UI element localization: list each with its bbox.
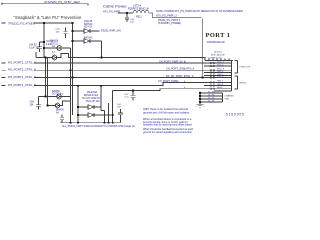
pin contact row y77.5 bbox=[210, 77, 212, 79]
svg-text:RS232_PWR_5V0: RS232_PWR_5V0 bbox=[101, 30, 121, 33]
svg-text:CHASSIS: CHASSIS bbox=[225, 94, 235, 97]
wire rail x45.5 bbox=[45, 58, 47, 97]
wire rail x78 bbox=[77, 86, 79, 123]
junction gnd bus x70 bbox=[70, 122, 72, 124]
svg-text:25V: 25V bbox=[117, 107, 121, 109]
junction net D rail x78 bbox=[77, 85, 79, 87]
pin contacts bbox=[214, 61, 232, 92]
svg-text:J4 RJ45: J4 RJ45 bbox=[214, 52, 222, 54]
wire rail x70.5 bbox=[70, 48, 72, 123]
wire row y85.6 bbox=[204, 85, 232, 87]
svg-text:FB21: FB21 bbox=[136, 15, 142, 18]
wire rail x47.5 bbox=[47, 58, 49, 106]
wire rail x104.5 bbox=[104, 111, 106, 123]
svg-text:0.1uF 16V: 0.1uF 16V bbox=[29, 47, 40, 49]
capacitor C1 bbox=[63, 28, 67, 39]
capacitor C6 bbox=[118, 109, 123, 123]
wire bus y57.5 bbox=[36, 52, 205, 61]
wire net A y23 bbox=[2, 22, 73, 24]
connector labels bbox=[208, 52, 251, 103]
junction x112 y115 bbox=[112, 114, 114, 116]
diode D7 bbox=[88, 113, 94, 117]
svg-text:RS_PORT1_CTRL_B: RS_PORT1_CTRL_B bbox=[8, 67, 36, 71]
svg-text:CN_PORT_GND_RTN_A: CN_PORT_GND_RTN_A bbox=[166, 67, 195, 70]
svg-text:PORT 1: PORT 1 bbox=[206, 32, 231, 39]
junction D3 tap bbox=[43, 47, 45, 49]
junction diode row y107 bbox=[77, 106, 79, 108]
svg-text:1=GRN 8=YEL: 1=GRN 8=YEL bbox=[208, 57, 223, 59]
junction branch2 bbox=[72, 40, 74, 42]
junction branch1 bbox=[72, 30, 74, 32]
svg-text:1N4148: 1N4148 bbox=[84, 21, 93, 23]
diode D1 bbox=[84, 29, 90, 33]
svg-text:Cable Power: Cable Power bbox=[103, 4, 127, 9]
pin contact row y82.5 bbox=[210, 82, 212, 84]
svg-text:GN2 8: GN2 8 bbox=[217, 84, 224, 86]
svg-text:75_1%: 75_1% bbox=[208, 97, 215, 99]
diode D4 bbox=[57, 94, 62, 99]
diode D2 bbox=[84, 39, 90, 43]
wire rail x72.5 bbox=[72, 23, 74, 115]
junction C44 tap bbox=[126, 12, 128, 14]
svg-text:MOD JACK 8P: MOD JACK 8P bbox=[211, 54, 225, 57]
wire rail x112.8 bbox=[112, 91, 114, 123]
svg-text:RS_PORT1_CTRL_D: RS_PORT1_CTRL_D bbox=[8, 83, 36, 87]
junction C2 tap bbox=[43, 41, 45, 43]
wire y48 diode branch 3 bbox=[44, 47, 71, 49]
wire branch y96.5 bbox=[46, 96, 71, 98]
svg-text:PULLUP 10K: PULLUP 10K bbox=[86, 101, 100, 103]
pin contact row y88.7 bbox=[210, 88, 212, 90]
capacitor C4 bbox=[36, 97, 46, 110]
svg-text:GND: GND bbox=[225, 99, 230, 101]
svg-text:"Snagback" & "Late PU" Prevent: "Snagback" & "Late PU" Prevention bbox=[14, 15, 83, 20]
diode D6 bbox=[88, 105, 94, 109]
junction bus y57 x101 bbox=[101, 57, 103, 59]
capacitor C5 bbox=[60, 115, 64, 123]
wire top standby sense bbox=[2, 3, 88, 6]
svg-text:BAW56: BAW56 bbox=[51, 40, 59, 43]
pin numbers left of rail bbox=[184, 61, 186, 89]
svg-text:SOT23 A4: SOT23 A4 bbox=[52, 93, 63, 96]
wire rail x44 bbox=[43, 23, 45, 58]
svg-text:C64 E3: C64 E3 bbox=[29, 45, 37, 47]
junction gnd bus x112 bbox=[112, 122, 114, 124]
wire corner to rail bbox=[101, 110, 105, 112]
lower pin group bbox=[197, 92, 223, 108]
ground bbox=[197, 102, 204, 107]
svg-text:7RS232_FS_ATXEN: 7RS232_FS_ATXEN bbox=[8, 21, 35, 25]
pin contact row y72.5 bbox=[210, 72, 212, 74]
pin comb bbox=[205, 59, 233, 61]
junction pin row 3 bbox=[199, 98, 201, 100]
notes paragraphs bbox=[143, 107, 194, 134]
junction net A x72 bbox=[72, 22, 74, 24]
bracket right lower bbox=[235, 76, 238, 89]
wire rail x108.5 bbox=[108, 103, 110, 123]
svg-text:NOTE: POWER ATX_PS_PWR3 MUST R: NOTE: POWER ATX_PS_PWR3 MUST REMAIN ON I… bbox=[156, 10, 243, 13]
pin contact row y75.5 bbox=[210, 75, 212, 77]
pin contact row y70.1 bbox=[210, 69, 212, 71]
svg-text:BAS40-04 E3: BAS40-04 E3 bbox=[84, 94, 99, 97]
wire net D y86 jog to y88.7 bbox=[2, 83, 232, 86]
junction gnd bus x104 bbox=[104, 122, 106, 124]
svg-text:BAT54C: BAT54C bbox=[84, 37, 93, 40]
svg-text:RS_PORT1_CTRL_C: RS_PORT1_CTRL_C bbox=[8, 75, 36, 79]
junction net B rail bbox=[70, 69, 72, 71]
svg-text:RPR15: RPR15 bbox=[240, 83, 248, 85]
wire Q y90.7 bbox=[113, 89, 232, 91]
wire branch y105.5 bbox=[48, 101, 71, 106]
svg-text:ALL_RS232_PORT SIGNALS REFER T: ALL_RS232_PORT SIGNALS REFER TO CHASSIS … bbox=[62, 125, 135, 128]
svg-text:BAW56: BAW56 bbox=[52, 90, 60, 93]
junction net A x44 bbox=[43, 22, 45, 24]
capacitor C44 bbox=[125, 13, 129, 22]
svg-text:75_1%: 75_1% bbox=[208, 91, 215, 93]
junction dots bbox=[43, 12, 203, 123]
diode D5 bbox=[55, 103, 60, 108]
connector ladder bbox=[205, 59, 238, 91]
svg-text:SOT23: SOT23 bbox=[51, 43, 59, 45]
wire ground bus y122.6 bbox=[60, 122, 121, 124]
svg-text:SHLD: SHLD bbox=[217, 87, 223, 89]
svg-text:GN1 7: GN1 7 bbox=[217, 80, 224, 82]
svg-text:BAW56: BAW56 bbox=[56, 109, 64, 112]
svg-text:(STANDBY_POWER): (STANDBY_POWER) bbox=[158, 22, 181, 25]
svg-text:75_1%: 75_1% bbox=[208, 94, 215, 96]
diode D3 bbox=[57, 46, 62, 51]
svg-text:OMIT these to be isolated from: OMIT these to be isolated from all local bbox=[143, 107, 188, 111]
capacitor C2 bbox=[37, 42, 44, 52]
wire net CTRL A y63 bbox=[2, 62, 232, 64]
svg-text:between that (to avoid ground: between that (to avoid ground offset iss… bbox=[143, 123, 192, 127]
svg-text:PW1 4: PW1 4 bbox=[217, 71, 224, 73]
junction net D x101 bbox=[100, 85, 102, 87]
wire row y75.5 bbox=[204, 75, 232, 77]
junction diode row y115 bbox=[77, 114, 79, 116]
svg-text:75_1%: 75_1% bbox=[208, 100, 215, 102]
junction rail x202 y77 bbox=[202, 77, 204, 79]
svg-text:SOT-23: SOT-23 bbox=[84, 27, 93, 29]
junction pin row 2 bbox=[199, 95, 201, 97]
svg-text:RJ45/MODULAR: RJ45/MODULAR bbox=[207, 41, 225, 44]
junction branch y96 rail bbox=[45, 96, 47, 98]
svg-text:RX1- 6: RX1- 6 bbox=[217, 76, 224, 78]
junction pin row 4 bbox=[199, 101, 201, 103]
junction bus y57 rail x45 bbox=[45, 57, 47, 59]
pin contact row y85.5 bbox=[210, 85, 212, 87]
wire row y66 bbox=[204, 65, 232, 67]
svg-text:TX1+ 1: TX1+ 1 bbox=[217, 61, 225, 63]
wire row y72.5 bbox=[204, 72, 232, 74]
junction branch y105 rail bbox=[47, 105, 49, 107]
junction pin row 1 bbox=[199, 92, 201, 94]
svg-text:FERRITE BEAD 3A: FERRITE BEAD 3A bbox=[128, 8, 149, 11]
wire power rail to connector bbox=[149, 13, 203, 78]
svg-text:ATXPWR_PS_STBY_SEN: ATXPWR_PS_STBY_SEN bbox=[44, 0, 80, 4]
svg-text:CN_PORT_PWR2: CN_PORT_PWR2 bbox=[158, 80, 179, 83]
svg-text:RS_PORT1_CTRL_A: RS_PORT1_CTRL_A bbox=[8, 60, 36, 64]
svg-text:TX1- 2: TX1- 2 bbox=[217, 64, 224, 66]
wire ATX_PS_PWR to inductor bbox=[118, 12, 133, 14]
diode D8 bbox=[52, 55, 57, 60]
junction gnd bus x108 bbox=[108, 122, 110, 124]
pin contact row y63 bbox=[210, 62, 212, 64]
wire diode branch 1 bbox=[73, 30, 100, 32]
inductor L2 bbox=[133, 10, 149, 13]
capacitor C3 bbox=[131, 91, 136, 101]
junction C3 tap bbox=[132, 90, 134, 92]
svg-text:RS_PD_PORT_CTRL_A: RS_PD_PORT_CTRL_A bbox=[166, 75, 194, 78]
svg-text:SOT-23 1/2W 5%: SOT-23 1/2W 5% bbox=[82, 98, 100, 100]
svg-text:PORT1_PW: PORT1_PW bbox=[240, 67, 251, 69]
svg-text:C66: C66 bbox=[30, 102, 35, 104]
wire branch y115 bbox=[78, 114, 113, 116]
svg-text:ATX_PS_PWR1.2: ATX_PS_PWR1.2 bbox=[156, 14, 177, 18]
wire net CTRL B y70.1 bbox=[2, 69, 232, 71]
svg-text:grounds per LAN hub spec and i: grounds per LAN hub spec and isolation bbox=[143, 110, 190, 114]
wire net CTRL C y77.5 bbox=[2, 77, 232, 79]
wire branch y107 bbox=[78, 106, 101, 108]
svg-text:CN_PORT_PWR_5V_A: CN_PORT_PWR_5V_A bbox=[159, 60, 186, 63]
wire rail x101 bbox=[100, 86, 102, 111]
pin circles bbox=[210, 62, 215, 90]
junction net C rail bbox=[72, 77, 74, 79]
svg-text:BAT54C: BAT54C bbox=[84, 23, 93, 26]
junction gnd bus x78 bbox=[77, 122, 79, 124]
svg-text:25LE-63A: 25LE-63A bbox=[87, 91, 98, 94]
svg-text:5169905: 5169905 bbox=[226, 113, 245, 117]
svg-text:ground for speed signaling and: ground for speed signaling and connectio… bbox=[143, 130, 192, 134]
svg-text:ATX_PS_PWR: ATX_PS_PWR bbox=[103, 9, 120, 13]
wire diode branch 2 bbox=[73, 41, 102, 57]
pin contact row y66 bbox=[210, 65, 212, 67]
bracket right upper bbox=[235, 61, 238, 74]
